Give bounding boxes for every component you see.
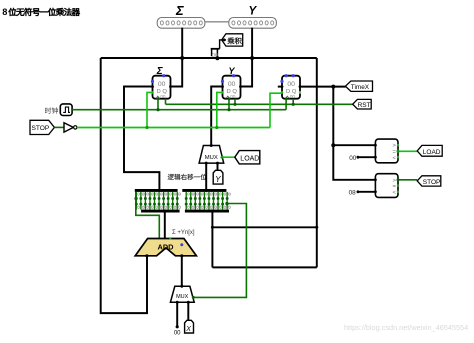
tunnel TimeX	[345, 81, 372, 91]
svg-text:00: 00	[290, 94, 296, 99]
constant 00 bottom	[176, 325, 179, 328]
wire probe Y drop	[241, 28, 253, 87]
pin regY clk dot	[228, 97, 231, 100]
wire STOP to NOT	[54, 126, 64, 128]
wire ADD right to mux M2	[181, 256, 183, 286]
wire reg counter stub	[278, 86, 282, 88]
wire counter rst stub	[292, 99, 294, 105]
comparator 1 (==0 -> LOAD)	[375, 139, 398, 163]
wire loop horizontal upper	[212, 226, 316, 228]
node TimeX junction	[331, 85, 335, 89]
wire cmp1 out	[398, 150, 417, 152]
wire loop horizontal lower	[212, 266, 316, 268]
svg-text:8: 8	[2, 7, 7, 17]
svg-text:00: 00	[158, 81, 166, 88]
tunnel STOP right	[417, 176, 441, 186]
wire regY clk stub	[228, 99, 230, 110]
wire RST line	[166, 103, 353, 105]
svg-text:Y: Y	[215, 175, 221, 184]
svg-text:00: 00	[349, 155, 357, 162]
svg-text:00: 00	[228, 81, 236, 88]
wire clock line	[72, 109, 286, 111]
pin mux M1 select dot	[221, 156, 224, 159]
svg-text:<: <	[393, 190, 397, 196]
node comb1 left dot	[134, 197, 137, 200]
node bus junction splitter	[215, 56, 219, 60]
node mux M1 out0	[205, 162, 208, 165]
clock source	[60, 104, 72, 116]
svg-text:00: 00	[160, 94, 166, 99]
node bus junction A	[180, 56, 184, 60]
wire comb2 select tap	[193, 204, 246, 298]
node mux M1 out1	[216, 162, 219, 165]
svg-text:STOP: STOP	[32, 125, 50, 132]
label 逻辑右移一位 (logical right shift by one)	[168, 174, 174, 180]
wire mux M1 to Y pin	[217, 163, 219, 170]
tunnel LOAD right	[417, 145, 442, 156]
pin mux M2 select dot	[192, 296, 195, 299]
wire enable line	[77, 127, 270, 129]
node mux M2 top	[180, 285, 183, 288]
wire comb2 in from mux	[205, 163, 207, 189]
wire regY en riser	[217, 92, 223, 127]
input pin Y	[213, 170, 223, 184]
splitter comb 2 (Y shift)	[182, 189, 226, 192]
node compare junction	[331, 143, 335, 147]
wire top bus	[101, 57, 317, 59]
svg-text:MUX: MUX	[176, 294, 189, 300]
svg-text:LOAD: LOAD	[240, 156, 259, 163]
wire product tag	[220, 40, 226, 49]
svg-text:ADD: ADD	[157, 242, 174, 251]
wire probe link	[205, 21, 229, 23]
wire const08 to cmp2	[358, 191, 376, 193]
node regSUM en	[145, 126, 148, 129]
pin cmp1 outs	[397, 150, 400, 153]
wire counter clk stub	[285, 99, 287, 110]
node comb2 in	[205, 189, 208, 192]
wire cmp2 out	[398, 179, 417, 181]
mux M2	[170, 286, 194, 302]
svg-text:08: 08	[349, 190, 357, 197]
adder ADD	[135, 239, 196, 256]
probe SUM display	[157, 18, 205, 29]
register Y	[223, 76, 241, 99]
wire comb1 carry elbow	[136, 192, 160, 239]
node regY rst	[233, 103, 236, 106]
NOT gate	[64, 123, 73, 132]
svg-text:MUX: MUX	[205, 155, 218, 161]
node bus junction B	[250, 56, 254, 60]
svg-text:<: <	[393, 155, 397, 161]
pin regSUM clk dot	[157, 97, 160, 100]
wire regY D path	[211, 87, 222, 146]
svg-text:00: 00	[230, 94, 236, 99]
svg-text:00: 00	[174, 331, 181, 337]
wire compare drop 2	[333, 145, 375, 180]
wire const00 to cmp1	[358, 156, 376, 158]
node loop T-junctions	[211, 226, 214, 229]
wire counter compare drop	[333, 87, 375, 146]
node regSUM clk	[156, 108, 159, 111]
svg-text:Σ +Yn[x]: Σ +Yn[x]	[172, 230, 195, 236]
tunnel RST	[353, 99, 372, 109]
node mux M2 in0	[176, 301, 179, 304]
node counter rst	[292, 103, 295, 106]
wire regSUM en riser	[147, 92, 153, 127]
svg-text:LOAD: LOAD	[423, 149, 441, 156]
input pin STOP	[30, 120, 54, 134]
wire mux M2 in1	[187, 302, 189, 320]
node comb2 select dot	[225, 202, 228, 205]
mux M1	[199, 146, 224, 164]
wire comb1 out to ADD	[164, 212, 166, 239]
register counter	[282, 76, 300, 99]
svg-text:>: >	[393, 178, 397, 184]
svg-text:STOP: STOP	[423, 179, 441, 186]
register SUM	[153, 76, 171, 99]
pin cmp2 outs	[397, 178, 400, 181]
pin ADD carry blue	[180, 243, 183, 246]
svg-text:>: >	[393, 143, 397, 149]
wire probe SUM drop	[171, 28, 183, 87]
tunnel LOAD mid	[235, 151, 260, 164]
node regY clk	[227, 108, 230, 111]
wire mux M1 select	[222, 156, 235, 158]
input pin X	[185, 320, 194, 333]
label 时钟 (clock)	[45, 107, 51, 113]
pin ADD top tick	[169, 237, 171, 239]
node comb2 out	[210, 210, 213, 213]
node ADD out right	[180, 254, 183, 257]
wire left feedback loop	[101, 58, 147, 313]
output pin 乘积 (product)	[222, 34, 243, 46]
probe Y display	[229, 18, 277, 29]
wire counter Q to TimeX	[300, 86, 346, 88]
svg-text:X: X	[185, 326, 191, 333]
svg-text:TimeX: TimeX	[351, 84, 370, 91]
wire counter en riser	[270, 93, 282, 127]
node regY en	[215, 126, 218, 129]
splitter comb 1 (sum shift)	[135, 189, 178, 192]
wire regSUM clk stub	[157, 99, 159, 110]
wire regSUM rst stub	[165, 99, 167, 105]
svg-text:https://blog.csdn.net/weixin_4: https://blog.csdn.net/weixin_46545554	[344, 323, 468, 332]
wire right loop vertical	[316, 58, 318, 267]
wire mux M2 in0	[176, 302, 178, 327]
node mux M2 in1	[187, 301, 190, 304]
node comb1 out	[163, 210, 166, 213]
svg-text:RST: RST	[358, 102, 371, 109]
node ADD out left	[145, 254, 148, 257]
svg-text:Σ: Σ	[175, 3, 184, 18]
splitter product 16-bit	[211, 48, 220, 50]
pin counter clk dot	[285, 97, 288, 100]
wire regY rst stub	[234, 99, 236, 105]
wire regSUM D path	[124, 87, 159, 190]
svg-text:00: 00	[287, 81, 295, 88]
svg-text:Y: Y	[249, 6, 258, 18]
node mux M1 input	[210, 144, 213, 147]
wire shifted-Y down	[211, 212, 213, 268]
comparator 2 (==8 -> STOP)	[375, 174, 398, 198]
node comb1 in	[158, 189, 161, 192]
